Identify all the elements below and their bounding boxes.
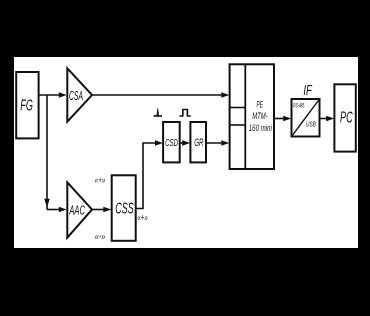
svg-text:160 mini: 160 mini [249, 123, 273, 133]
wire GR to PE [206, 140, 229, 146]
wire CSA to PE [92, 92, 229, 98]
svg-text:«-»: «-» [95, 232, 106, 242]
block GR [190, 122, 206, 162]
wire PE to IF [274, 116, 291, 122]
svg-text:CSA: CSA [69, 88, 83, 103]
wire branch down to AAC [44, 95, 67, 212]
block PE MTM-160 mini [230, 64, 274, 169]
label IF [303, 83, 312, 99]
svg-text:USB: USB [306, 120, 316, 129]
svg-text:MTM-: MTM- [252, 111, 268, 121]
square pulse symbol [180, 110, 191, 117]
spike pulse symbol [154, 108, 163, 116]
label plus top [95, 175, 106, 185]
svg-text:AAC: AAC [69, 202, 85, 217]
block FG [16, 72, 38, 138]
svg-text:PE: PE [257, 99, 264, 109]
label minus bottom [95, 232, 106, 242]
svg-text:RS-485: RS-485 [293, 102, 304, 109]
amplifier CSA [67, 68, 92, 121]
svg-text:«+»: «+» [95, 175, 106, 185]
wire AAC to CSS [92, 207, 111, 213]
wire FG to CSA [39, 92, 67, 98]
svg-text:GR: GR [194, 137, 203, 149]
svg-text:IF: IF [303, 83, 312, 99]
amplifier AAC [67, 182, 92, 237]
block CSD [163, 122, 180, 162]
wire CSS to CSD [136, 140, 163, 208]
svg-text:CSS: CSS [115, 201, 134, 218]
svg-text:FG: FG [20, 98, 33, 115]
svg-text:PC: PC [340, 110, 353, 127]
block CSS [112, 175, 136, 241]
block IF RS-485 USB [292, 99, 320, 137]
svg-text:«+»: «+» [137, 213, 148, 223]
svg-text:CSD: CSD [165, 137, 178, 149]
block PC [334, 84, 355, 151]
wire IF to PC [320, 116, 335, 122]
wire CSD to GR [180, 140, 191, 146]
label plus right [137, 213, 148, 223]
